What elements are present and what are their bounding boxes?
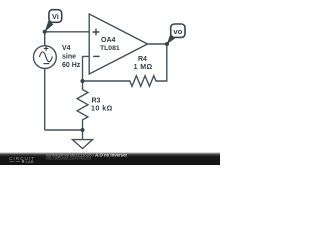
svg-text:60 Hz: 60 Hz: [62, 62, 81, 69]
resistor R4: [124, 56, 162, 86]
svg-text:10 kΩ: 10 kΩ: [91, 105, 113, 112]
probe label vi: [45, 10, 62, 32]
svg-text:sine: sine: [62, 53, 76, 60]
wire: node B to ground: [82, 130, 84, 140]
watermark bar: [0, 152, 220, 165]
node B: [80, 128, 84, 132]
svg-text:R3: R3: [92, 97, 101, 104]
svg-text:vo: vo: [173, 27, 182, 36]
svg-text:1 MΩ: 1 MΩ: [134, 64, 153, 71]
wire: R4 right lead up to output node D: [162, 44, 167, 81]
node C: [80, 79, 84, 83]
probe label vo: [167, 24, 185, 44]
node A: [43, 30, 47, 34]
voltage source V4: [34, 45, 81, 69]
wire: bottom rail to node B: [45, 129, 83, 131]
wire: V4 bottom terminal down to bottom rail: [44, 68, 46, 130]
ground: [73, 140, 93, 149]
svg-text:R4: R4: [138, 56, 147, 63]
node D: [165, 42, 169, 46]
wire: op-amp output to node D: [148, 43, 168, 45]
op-amp OA4 TL081: [89, 14, 147, 74]
wire: node C to R4 left lead: [83, 80, 125, 82]
svg-text:LAB: LAB: [26, 159, 34, 164]
svg-text:Vi: Vi: [52, 12, 59, 21]
wire: node A to op-amp + input: [45, 31, 89, 33]
svg-text:V4: V4: [62, 45, 71, 52]
svg-text:OA4: OA4: [101, 37, 116, 44]
wire: node C up and right to op-amp - input: [83, 56, 90, 81]
wire: node A down to V4 top terminal: [44, 32, 46, 46]
svg-text:TL081: TL081: [100, 45, 120, 52]
resistor R3: [77, 81, 113, 130]
svg-text:http://circuitlab.com/c/4cs2n3: http://circuitlab.com/c/4cs2n3: [46, 157, 91, 161]
